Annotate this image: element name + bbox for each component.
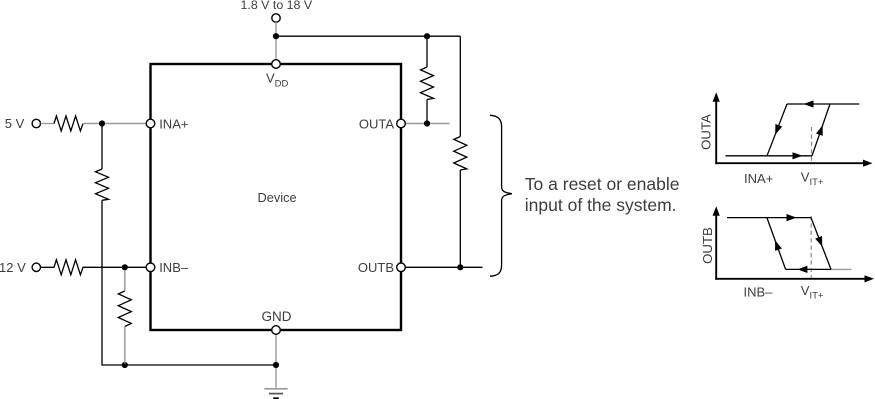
wire OUTB out — [405, 266, 482, 268]
svg-text:INA+: INA+ — [744, 171, 773, 186]
graph A — [699, 92, 873, 188]
svg-text:INB–: INB– — [744, 285, 774, 300]
pin GND — [272, 326, 281, 335]
svg-text:5 V: 5 V — [5, 116, 25, 131]
wire OUTA stub (gray) — [405, 123, 449, 125]
node C — [122, 264, 128, 270]
wire node A to INA+ (gray) — [105, 123, 146, 125]
wire R1 to node A — [83, 123, 99, 125]
wire R2 to bottom rail — [102, 200, 276, 365]
pin OUTA — [397, 119, 406, 128]
wire node C down (gray) — [124, 270, 126, 291]
graph A arrow up on right slope — [816, 125, 823, 136]
wire R3 to OUTA — [426, 100, 428, 124]
svg-text:OUTB: OUTB — [358, 260, 394, 275]
svg-text:OUTA: OUTA — [699, 114, 714, 150]
graph B curve right slope — [811, 218, 831, 270]
svg-text:GND: GND — [262, 309, 292, 324]
node bottom GND — [273, 362, 279, 368]
graph A arrow down on left slope — [775, 124, 782, 135]
device U1 — [151, 64, 402, 330]
svg-text:Device: Device — [258, 190, 297, 205]
wire terminal to VDD (gray) — [275, 22, 277, 60]
graph A curve right slope — [812, 104, 830, 156]
svg-text:VIT+: VIT+ — [801, 283, 824, 302]
graph B arrow right on high — [787, 214, 797, 221]
resistor R6 — [118, 291, 131, 327]
svg-text:INA+: INA+ — [159, 116, 188, 131]
wire GND to ground (gray) — [275, 334, 277, 388]
resistor R3 — [421, 67, 434, 100]
wire VDD rail top — [276, 35, 460, 37]
svg-text:12 V: 12 V — [0, 260, 26, 275]
svg-text:input of the system.: input of the system. — [525, 195, 677, 215]
ground symbol — [264, 388, 287, 390]
node OUTA junction — [424, 120, 430, 126]
terminal 1.8V — [272, 14, 280, 22]
graph A curve left slope — [767, 104, 787, 156]
brace — [490, 115, 512, 276]
node OUTB junction — [457, 264, 463, 270]
graph A curve low — [726, 155, 813, 157]
wire 5V to R1 — [41, 123, 55, 125]
svg-text:OUTB: OUTB — [700, 227, 715, 264]
graph B arrow down on right slope — [815, 236, 822, 247]
node A — [99, 120, 105, 126]
resistor R4 — [454, 137, 467, 171]
graph B dashed VIT+ — [810, 216, 812, 278]
terminal 5V — [32, 119, 40, 127]
pin VDD — [272, 60, 281, 69]
graph A x-axis — [715, 162, 865, 164]
graph A curve high — [787, 103, 859, 105]
graph A dashed VIT+ — [811, 127, 813, 162]
node pull-up A top — [424, 33, 430, 39]
graph B — [700, 206, 874, 301]
node bottom B — [122, 362, 128, 368]
resistor R2 — [96, 169, 109, 200]
graph B curve low gray — [831, 268, 852, 270]
svg-text:VIT+: VIT+ — [801, 170, 824, 189]
pin OUTB — [397, 263, 406, 272]
wire 12V to R5 — [41, 266, 55, 268]
svg-text:1.8 V to 18 V: 1.8 V to 18 V — [241, 0, 313, 12]
graph A arrow left on high — [804, 100, 814, 107]
resistor R5 — [54, 260, 83, 275]
wire VDD rail down to OUTB with resistor R4 — [459, 36, 461, 136]
svg-text:To a reset or enable: To a reset or enable — [525, 174, 680, 194]
graph A arrow right on low — [793, 152, 803, 159]
wire R6 to bottom rail — [124, 327, 126, 364]
pin INA+ — [146, 119, 155, 128]
graph A y-axis — [715, 101, 717, 165]
graph B arrow left on low — [797, 266, 807, 273]
wire R4 to OUTB node — [459, 170, 461, 267]
graph B curve left slope — [767, 218, 786, 270]
svg-text:INB–: INB– — [159, 260, 189, 275]
svg-text:OUTA: OUTA — [359, 116, 394, 131]
graph B curve low black — [786, 268, 831, 270]
node VDD rail junction — [273, 33, 279, 39]
svg-text:VDD: VDD — [266, 71, 289, 90]
wire R5 to INB- — [83, 266, 147, 268]
pin INB- — [146, 263, 155, 272]
graph B y-axis — [715, 215, 717, 280]
graph B curve high — [727, 217, 811, 219]
graph B x-axis — [715, 278, 866, 280]
resistor R1 — [54, 116, 83, 131]
wire pull-up A drop — [426, 36, 428, 67]
wire node A down chain — [101, 124, 103, 170]
graph B arrow up on left slope — [775, 240, 782, 251]
terminal 12V — [32, 263, 40, 271]
